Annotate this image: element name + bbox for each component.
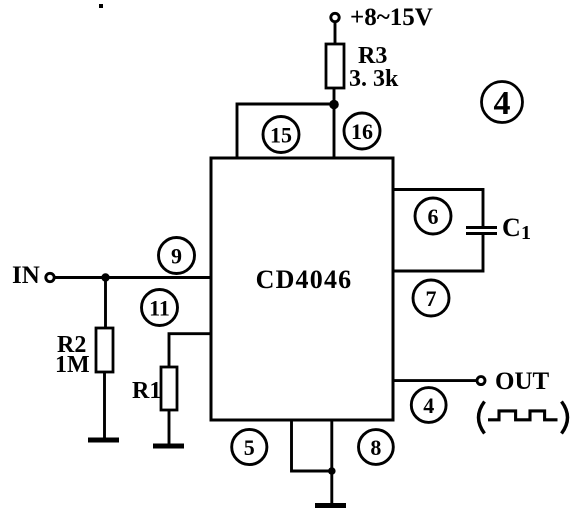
- svg-text:15: 15: [270, 123, 292, 148]
- pin 8 wire: [330, 420, 333, 505]
- svg-text:11: 11: [149, 296, 170, 321]
- ground R1: [153, 444, 184, 449]
- svg-text:CD4046: CD4046: [256, 265, 353, 294]
- square wave: [488, 411, 558, 420]
- svg-text:3. 3k: 3. 3k: [349, 66, 399, 92]
- power terminal: [331, 13, 339, 21]
- capacitor C1: [466, 226, 497, 229]
- svg-text:7: 7: [426, 286, 437, 311]
- resistor R2: [96, 328, 113, 372]
- pin 7 wire: [393, 233, 483, 271]
- pin 7 circle: [413, 280, 449, 316]
- svg-text:R1: R1: [132, 378, 161, 404]
- svg-text:4: 4: [423, 393, 434, 418]
- svg-text:OUT: OUT: [495, 368, 550, 395]
- svg-text:16: 16: [351, 119, 373, 144]
- svg-text:IN: IN: [12, 262, 40, 289]
- pin 9 circle: [159, 238, 195, 274]
- svg-text:+8~15V: +8~15V: [350, 4, 433, 31]
- wire junction to R2: [104, 278, 107, 329]
- pin 6 circle: [415, 198, 451, 234]
- pin 8 circle: [359, 430, 394, 465]
- svg-text:6: 6: [428, 204, 439, 229]
- OUT terminal: [477, 377, 485, 385]
- wire R1 to ground: [168, 410, 171, 446]
- resistor R3: [326, 44, 344, 88]
- pin 5 circle: [232, 429, 267, 464]
- svg-text:5: 5: [244, 435, 255, 460]
- pin 4 circle: [411, 388, 446, 423]
- resistor R1: [161, 367, 177, 410]
- junction dot IN: [101, 273, 109, 281]
- pin 6 wire: [393, 190, 483, 227]
- square wave symbol right paren: [562, 402, 568, 434]
- ground bottom: [315, 503, 346, 508]
- svg-text:8: 8: [370, 435, 381, 460]
- svg-text:C: C: [502, 213, 521, 242]
- svg-text:1M: 1M: [55, 352, 90, 378]
- wire pin15 branch: [237, 104, 334, 159]
- pin 16 circle: [344, 113, 380, 149]
- wire R2 to ground: [103, 372, 106, 440]
- pin 5 wire: [292, 420, 332, 471]
- IN terminal: [46, 273, 54, 281]
- junction dot: [329, 100, 339, 110]
- wire power terminal to R3: [334, 22, 337, 44]
- square wave symbol left paren: [479, 402, 485, 434]
- ground R2: [88, 438, 119, 443]
- wire R3 to pin16: [333, 88, 336, 159]
- op IC U1 CD4046: [211, 158, 393, 420]
- OUT wire: [393, 379, 477, 382]
- junction dot bottom: [328, 467, 336, 475]
- pin 11 wire: [169, 334, 211, 367]
- pin 11 circle: [142, 290, 178, 326]
- figure number 4: [482, 82, 523, 123]
- wire IN to pin 9: [55, 276, 212, 279]
- pin 15 circle: [263, 117, 299, 153]
- svg-text:1: 1: [521, 222, 531, 244]
- svg-text:4: 4: [494, 85, 511, 122]
- speck: [99, 4, 103, 8]
- svg-text:9: 9: [171, 244, 182, 269]
